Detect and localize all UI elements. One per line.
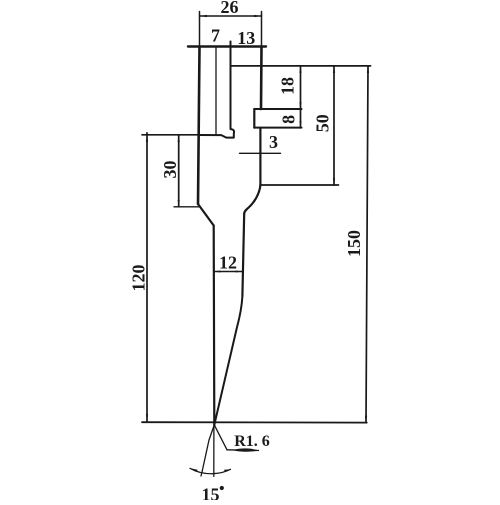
bottom extension line y=423 [142,421,367,423]
angle leg vertical below tip [213,425,215,477]
svg-text:8: 8 [279,115,299,124]
arrow 18 bottom [299,102,301,109]
part left edge [198,47,200,205]
arrow 50 bottom [333,178,335,185]
part left shank edge down to tip [213,226,216,425]
svg-text:26: 26 [221,0,239,17]
leader R1.6 diagonal [214,425,227,450]
svg-text:150: 150 [344,230,364,257]
part right blade bevel to tip [214,296,242,425]
notch top edge + extension to 8-dim [254,108,301,110]
svg-text:18: 18 [277,77,297,95]
arc arrow right [224,469,231,472]
part right edge below notch [259,128,261,185]
degree dot [220,486,224,490]
dim line 50 vertical [333,66,335,185]
part right shoulder curve [244,185,260,214]
part right edge (top) [260,47,263,110]
arrow 150 top [367,66,369,73]
notch bottom edge + extension to 8-dim [254,127,301,129]
arrow 8 bottom [299,121,301,128]
internal tang line with hook [200,42,235,138]
svg-text:3: 3 [269,132,278,152]
dim line 18/8 vertical [300,66,302,128]
svg-text:50: 50 [313,114,333,132]
leader R1.6 horizontal shelf [227,449,259,452]
angle dimension arc 15 [190,468,231,473]
arrow 18 top [299,66,301,73]
dim line 3 horizontal [240,152,281,154]
svg-text:120: 120 [128,265,148,292]
leader R1.6 dart [233,448,259,451]
arrow 12 right [236,271,243,273]
dim line 30 vertical [178,135,180,207]
arrow 150 bottom [365,416,367,423]
tick divider at 13 from right [230,42,232,52]
part left chamfer diagonal [198,204,214,226]
svg-text:15: 15 [202,485,220,501]
extension line 50 bottom [260,184,338,186]
arrow 50 top [333,66,335,73]
dim line 7/13 + part top edge [188,45,266,47]
arrow 30 bottom [178,200,180,207]
svg-text:30: 30 [160,161,180,179]
arrow 26 right [254,15,262,17]
extension line y=66 (top of 150/50/18) [231,65,371,67]
arrow 120 top [146,135,148,142]
svg-text:13: 13 [237,28,255,48]
extension line 30 bottom [174,206,200,208]
part right shank edge [242,214,244,297]
dim line 12 [214,271,243,273]
dim line 120 vertical [146,133,148,421]
thin extension line at 7 from left [215,47,217,135]
angle leg left diagonal below tip [201,425,214,476]
svg-text:7: 7 [211,26,220,46]
extension line y=135 to left dims [142,134,200,136]
dim line 26 (top) [200,15,262,17]
arrow 26 left [200,15,208,17]
extension line right of 26 [261,12,263,48]
dim line 150 vertical [366,66,368,423]
arrow 12 left [214,271,221,273]
arc arrow left [191,468,198,472]
svg-text:12: 12 [219,253,237,273]
svg-text:R1. 6: R1. 6 [234,433,270,450]
notch face [253,109,255,128]
arrow 30 top [178,135,180,142]
arrow 120 bottom [146,414,148,421]
extension line left of 26 [199,12,201,48]
